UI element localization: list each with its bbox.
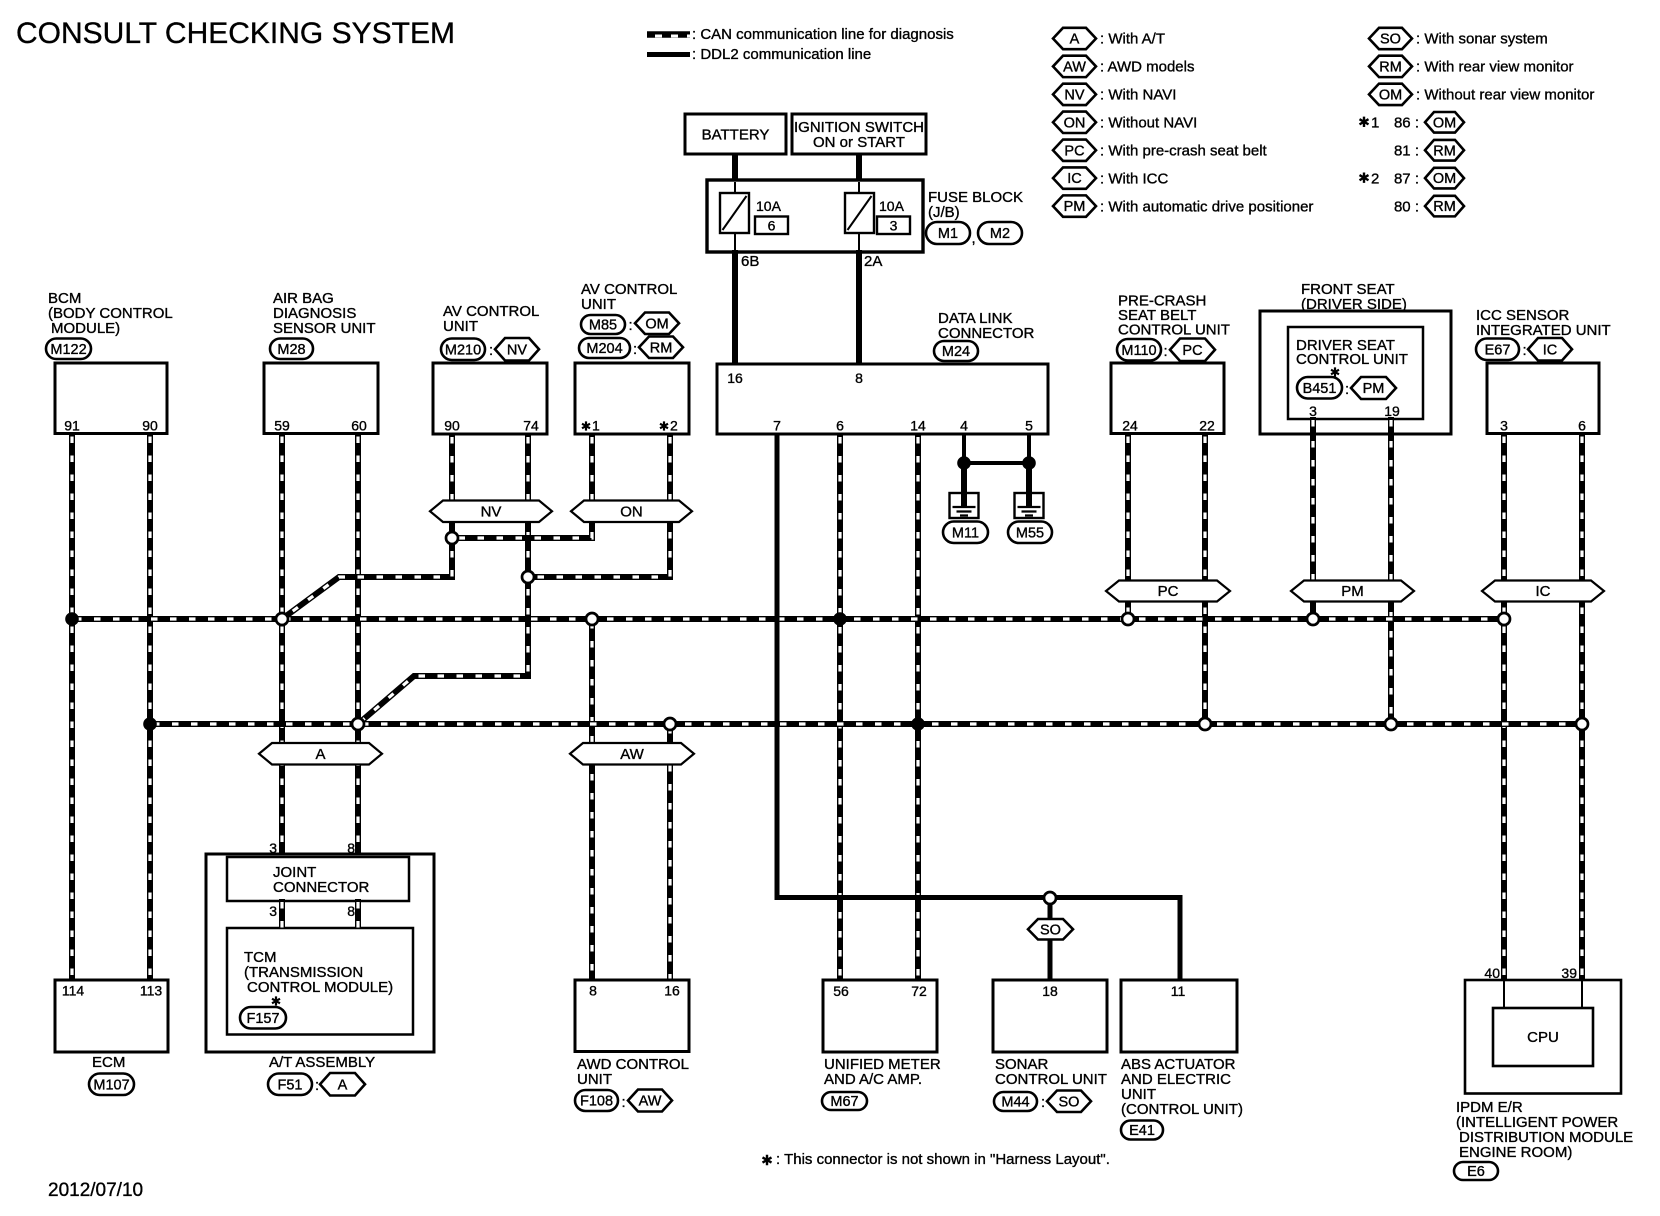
svg-text:M110: M110 — [1121, 343, 1156, 359]
svg-text:MODULE): MODULE) — [51, 320, 120, 337]
svg-text:AW: AW — [639, 1094, 662, 1110]
svg-text:6: 6 — [1578, 418, 1586, 434]
svg-text:74: 74 — [523, 418, 539, 434]
wire CAN BCM 91 to ECM 114 — [69, 434, 75, 981]
svg-text:18: 18 — [1042, 983, 1058, 999]
component IPDM E/R — [1465, 980, 1621, 1094]
svg-text:AW: AW — [1063, 60, 1086, 76]
svg-text:RM: RM — [1433, 143, 1456, 159]
svg-text:M122: M122 — [50, 342, 86, 358]
svg-text:: With sonar system: : With sonar system — [1416, 31, 1548, 48]
svg-text:1: 1 — [592, 418, 600, 434]
junction bus1 driver seat open — [1307, 613, 1319, 625]
connector M1 — [926, 222, 970, 244]
svg-text:M85: M85 — [589, 318, 617, 334]
CPU box — [1493, 1008, 1593, 1066]
component AWD control unit — [575, 980, 689, 1052]
svg-text:113: 113 — [140, 983, 163, 999]
svg-text:,: , — [972, 230, 976, 247]
svg-text:1: 1 — [1371, 114, 1379, 131]
svg-text:56: 56 — [833, 983, 849, 999]
legend symbol IC — [1053, 167, 1096, 188]
svg-text:91: 91 — [64, 418, 80, 434]
wire CAN AV unit 90 via NV — [282, 434, 452, 619]
wire CAN pre-crash 24 to bus1 — [1125, 434, 1131, 620]
svg-text:2012/07/10: 2012/07/10 — [48, 1180, 143, 1201]
wire DDL2 branch to sonar — [1048, 898, 1053, 920]
legend symbol NV — [1053, 84, 1096, 105]
svg-text:M204: M204 — [586, 341, 622, 357]
svg-text:CONTROL UNIT: CONTROL UNIT — [1118, 322, 1230, 339]
svg-text:M210: M210 — [445, 342, 481, 358]
svg-text:F157: F157 — [246, 1011, 279, 1027]
svg-text::: : — [489, 342, 493, 359]
svg-text:: Without rear view monitor: : Without rear view monitor — [1416, 87, 1594, 104]
svg-text:UNIT: UNIT — [577, 1071, 612, 1088]
svg-text:NV: NV — [1064, 87, 1084, 103]
wire CAN pre-crash 22 to bus2 — [1202, 434, 1208, 725]
svg-text:ECM: ECM — [92, 1054, 125, 1071]
svg-text:: CAN communication line for d: : CAN communication line for diagnosis — [692, 26, 954, 43]
svg-text:8: 8 — [855, 370, 863, 386]
svg-text::: : — [633, 341, 637, 358]
svg-text:8: 8 — [347, 903, 355, 919]
svg-text:: With NAVI: : With NAVI — [1100, 87, 1176, 104]
junction bus1 ICC open — [1498, 613, 1510, 625]
wire CAN AV unit *2 branch — [528, 434, 670, 577]
svg-text:BATTERY: BATTERY — [702, 127, 770, 144]
fuse 10A no.3 — [845, 193, 874, 233]
junction bus2 airbag60 open — [352, 718, 364, 730]
svg-text:RM: RM — [1379, 60, 1402, 76]
svg-text:: Without NAVI: : Without NAVI — [1100, 114, 1197, 131]
IPDM internal wire 40 — [1503, 981, 1505, 1009]
svg-text:3: 3 — [1500, 418, 1508, 434]
svg-text::: : — [1164, 343, 1168, 360]
junction NV branch open — [446, 532, 458, 544]
ignition feed wire — [856, 152, 862, 182]
svg-text::: : — [629, 317, 633, 334]
svg-text:M1: M1 — [938, 226, 958, 242]
legend symbol PC — [1053, 140, 1096, 161]
svg-text:CONTROL UNIT: CONTROL UNIT — [1296, 351, 1408, 368]
wire CAN driver seat 3 to bus1 — [1310, 419, 1316, 619]
svg-text:M24: M24 — [942, 344, 970, 360]
svg-text:A: A — [338, 1077, 348, 1093]
svg-text:SO: SO — [1059, 1094, 1080, 1110]
svg-text:PC: PC — [1158, 583, 1179, 600]
svg-text:NV: NV — [481, 504, 502, 521]
svg-text:M55: M55 — [1016, 525, 1044, 541]
svg-text:: With A/T: : With A/T — [1100, 31, 1165, 48]
svg-text:OM: OM — [1433, 115, 1456, 131]
svg-text:8: 8 — [347, 840, 355, 856]
footnote star note — [762, 1155, 771, 1165]
IPDM internal wire 39 — [1581, 981, 1583, 1009]
wire CAN ICC 6 to IPDM 39 — [1579, 434, 1585, 981]
svg-text:(CONTROL UNIT): (CONTROL UNIT) — [1121, 1101, 1243, 1118]
box BATTERY — [685, 114, 786, 154]
band AW — [570, 743, 694, 765]
svg-text:M28: M28 — [277, 342, 305, 358]
svg-text:ON: ON — [620, 504, 643, 521]
svg-text:B451: B451 — [1303, 381, 1337, 397]
svg-text:5: 5 — [1025, 418, 1033, 434]
svg-text:AND A/C AMP.: AND A/C AMP. — [824, 1071, 922, 1088]
svg-text:F51: F51 — [278, 1077, 303, 1093]
svg-text:SENSOR UNIT: SENSOR UNIT — [273, 320, 376, 337]
wire DLC 4 ground — [962, 434, 966, 463]
wire CAN driver seat 19 to bus2 — [1388, 419, 1394, 724]
legend symbol PM — [1053, 195, 1096, 216]
svg-text:UNIT: UNIT — [581, 296, 616, 313]
junction bus1 AWD drop open — [586, 613, 598, 625]
svg-text:PM: PM — [1363, 381, 1385, 397]
band IC — [1482, 581, 1604, 602]
fuse block internal wire left — [734, 182, 736, 250]
svg-text::: : — [622, 1094, 626, 1111]
band PC — [1106, 581, 1230, 602]
junction bus1 pre-crash open — [1122, 613, 1134, 625]
svg-text:11: 11 — [1171, 983, 1186, 999]
wire CAN bus2 drop to AWD 16 — [667, 724, 673, 980]
svg-text:OM: OM — [1433, 171, 1456, 187]
component A/T assembly — [206, 854, 434, 1052]
svg-text:7: 7 — [773, 418, 781, 434]
legend symbol ON — [1053, 112, 1096, 133]
box IGNITION SWITCH ON or START — [792, 114, 926, 154]
svg-text:3: 3 — [269, 840, 277, 856]
svg-text:NV: NV — [507, 342, 527, 358]
legend row 87:OM — [1359, 172, 1368, 182]
svg-text:60: 60 — [351, 418, 367, 434]
svg-text:6: 6 — [768, 218, 776, 234]
svg-text:PM: PM — [1064, 199, 1086, 215]
fuse block J/B box — [707, 180, 923, 252]
wire CAN DLC 6 to meter 56 — [837, 434, 843, 980]
legend symbol A — [1053, 28, 1096, 49]
svg-text:SO: SO — [1380, 32, 1401, 48]
junction bus2 AWD16 open — [664, 718, 676, 730]
component ECM — [55, 980, 168, 1052]
fuse block internal wire right — [858, 182, 860, 250]
svg-text:RM: RM — [650, 340, 673, 356]
svg-text:E67: E67 — [1485, 342, 1511, 358]
junction bus2 driver seat19 open — [1385, 718, 1397, 730]
svg-text:24: 24 — [1122, 418, 1138, 434]
svg-text:2: 2 — [1371, 170, 1379, 187]
svg-text:87 :: 87 : — [1394, 170, 1419, 187]
svg-text:: AWD models: : AWD models — [1100, 59, 1194, 76]
connector M2 — [978, 222, 1022, 244]
svg-text:OM: OM — [645, 316, 668, 332]
svg-text:CONNECTOR: CONNECTOR — [938, 325, 1035, 342]
svg-text:PM: PM — [1341, 583, 1364, 600]
svg-text:PC: PC — [1182, 343, 1202, 359]
junction bus1 BCM column filled — [65, 612, 79, 626]
ground M11 — [950, 493, 979, 518]
legend DDL2 line sample — [647, 52, 690, 57]
svg-text:59: 59 — [274, 418, 290, 434]
junction bus2 BCM column filled — [143, 717, 157, 731]
wire CAN bus2 — [150, 721, 1582, 727]
svg-text:3: 3 — [269, 903, 277, 919]
junction AV74 branch open — [522, 571, 534, 583]
svg-text::: : — [1041, 1094, 1045, 1111]
svg-text:A: A — [315, 746, 325, 763]
svg-text:ENGINE ROOM): ENGINE ROOM) — [1459, 1144, 1572, 1161]
svg-text:: With pre-crash seat belt: : With pre-crash seat belt — [1100, 142, 1268, 159]
svg-text:16: 16 — [727, 370, 743, 386]
wire 2A to data link connector — [856, 250, 862, 365]
svg-text:40: 40 — [1484, 965, 1500, 981]
svg-text:19: 19 — [1384, 403, 1400, 419]
svg-text::: : — [1523, 342, 1527, 359]
svg-text:OM: OM — [1379, 87, 1402, 103]
svg-text:81 :: 81 : — [1394, 142, 1419, 159]
wire DLC 5 ground — [1027, 434, 1031, 463]
TCM box — [227, 928, 413, 1035]
svg-text:90: 90 — [444, 418, 460, 434]
wire CAN BCM 90 to ECM 113 — [147, 434, 153, 981]
svg-text:M11: M11 — [952, 525, 979, 541]
wire 6B to data link connector — [732, 250, 738, 365]
svg-text:72: 72 — [911, 983, 927, 999]
svg-text:E6: E6 — [1467, 1164, 1485, 1180]
svg-text:INTEGRATED UNIT: INTEGRATED UNIT — [1476, 322, 1611, 339]
svg-text:E41: E41 — [1129, 1123, 1155, 1139]
junction bus1 airbag column open — [276, 613, 288, 625]
band PM — [1291, 581, 1414, 602]
wire driver seat 19 stub — [1388, 417, 1394, 437]
svg-text:86 :: 86 : — [1394, 114, 1419, 131]
wire joint connector to TCM 3 — [279, 899, 285, 929]
svg-text:3: 3 — [890, 218, 898, 234]
svg-text:10A: 10A — [879, 198, 905, 214]
wire CAN air bag 60 to A/T 8 — [355, 434, 361, 856]
wire driver seat 3 stub — [1310, 417, 1316, 437]
svg-text:M2: M2 — [990, 226, 1010, 242]
band ON — [571, 501, 692, 523]
svg-text:2A: 2A — [864, 253, 882, 270]
svg-text:39: 39 — [1561, 965, 1577, 981]
svg-text:IC: IC — [1536, 583, 1551, 600]
svg-text:AW: AW — [620, 746, 644, 763]
legend CAN line sample — [647, 31, 690, 38]
svg-text:3: 3 — [1309, 403, 1317, 419]
wire CAN bus1 drop to AWD 8 — [589, 619, 595, 980]
band NV — [430, 501, 552, 523]
svg-text:CONNECTOR: CONNECTOR — [273, 879, 370, 896]
svg-text:ON: ON — [1064, 115, 1086, 131]
svg-text:A: A — [1070, 32, 1080, 48]
wire DDL2 DLC 7 to ABS 11 — [777, 434, 1180, 980]
junction bus2 DLC14 filled — [911, 717, 925, 731]
legend symbol RM — [1369, 56, 1412, 77]
svg-text:14: 14 — [910, 418, 926, 434]
svg-text:(J/B): (J/B) — [928, 204, 960, 221]
svg-text:16: 16 — [664, 983, 680, 999]
svg-text:UNIT: UNIT — [443, 318, 478, 335]
svg-text:ON or START: ON or START — [813, 134, 905, 151]
svg-text:M107: M107 — [93, 1077, 129, 1093]
svg-text::: : — [315, 1077, 319, 1094]
svg-text:80 :: 80 : — [1394, 198, 1419, 215]
svg-text:6: 6 — [836, 418, 844, 434]
svg-text:F108: F108 — [580, 1094, 613, 1110]
junction bus1 DLC6 filled — [833, 612, 847, 626]
svg-text:: This connector is not shown: : This connector is not shown in "Harnes… — [776, 1151, 1110, 1168]
svg-text:114: 114 — [62, 983, 85, 999]
svg-text:10A: 10A — [756, 198, 782, 214]
svg-text:4: 4 — [960, 418, 968, 434]
svg-text:: With automatic drive positio: : With automatic drive positioner — [1100, 198, 1313, 215]
component ABS actuator and electric unit — [1121, 980, 1237, 1052]
junction bus2 ICC6 open — [1576, 718, 1588, 730]
junction bus2 pre-crash22 open — [1199, 718, 1211, 730]
svg-text:PC: PC — [1064, 143, 1084, 159]
svg-text:90: 90 — [142, 418, 158, 434]
wire CAN ICC 3 to IPDM 40 — [1501, 434, 1507, 981]
svg-text:IC: IC — [1067, 171, 1082, 187]
band A — [259, 743, 382, 765]
svg-text:CONTROL UNIT: CONTROL UNIT — [995, 1071, 1107, 1088]
svg-text:2: 2 — [670, 418, 678, 434]
junction ground 5 filled — [1022, 456, 1036, 470]
svg-text:IC: IC — [1543, 342, 1558, 358]
svg-text:: DDL2 communication line: : DDL2 communication line — [692, 46, 871, 63]
joint connector box — [227, 857, 409, 901]
svg-text:M67: M67 — [830, 1094, 858, 1110]
svg-text:: With ICC: : With ICC — [1100, 170, 1169, 187]
wire CAN AV unit *1 via ON — [452, 434, 592, 538]
wire CAN AV unit 74 branch — [358, 434, 528, 724]
svg-text:: With rear view monitor: : With rear view monitor — [1416, 59, 1574, 76]
svg-text:RM: RM — [1433, 199, 1456, 215]
junction sonar branch open — [1044, 892, 1056, 904]
legend symbol AW — [1053, 56, 1096, 77]
wire joint connector to TCM 8 — [355, 899, 361, 929]
wire CAN bus1 — [72, 616, 1504, 622]
symbol SO on sonar branch — [1028, 919, 1073, 940]
svg-text:8: 8 — [589, 983, 597, 999]
component sonar control unit — [993, 980, 1107, 1052]
wire CAN DLC 14 to meter 72 — [915, 434, 921, 980]
svg-text:A/T ASSEMBLY: A/T ASSEMBLY — [269, 1054, 375, 1071]
wire ground link — [964, 461, 1029, 465]
svg-text:SO: SO — [1040, 922, 1061, 938]
svg-text:22: 22 — [1199, 418, 1215, 434]
svg-text:M44: M44 — [1001, 1095, 1029, 1111]
svg-text:CONTROL MODULE): CONTROL MODULE) — [247, 979, 393, 996]
ground M55 — [1015, 493, 1044, 518]
legend row 86:OM — [1359, 117, 1368, 127]
legend symbol SO — [1369, 28, 1412, 49]
component unified meter and A/C amp — [823, 980, 937, 1052]
svg-text:6B: 6B — [741, 253, 759, 270]
svg-text:CPU: CPU — [1527, 1029, 1559, 1046]
svg-text::: : — [1345, 381, 1349, 398]
fuse 10A no.6 — [720, 193, 749, 233]
svg-text:CONSULT CHECKING SYSTEM: CONSULT CHECKING SYSTEM — [16, 17, 455, 50]
wire CAN air bag 59 to A/T 3 — [279, 434, 285, 856]
legend symbol OM — [1369, 84, 1412, 105]
junction ground 4 filled — [957, 456, 971, 470]
battery feed wire — [732, 152, 738, 182]
